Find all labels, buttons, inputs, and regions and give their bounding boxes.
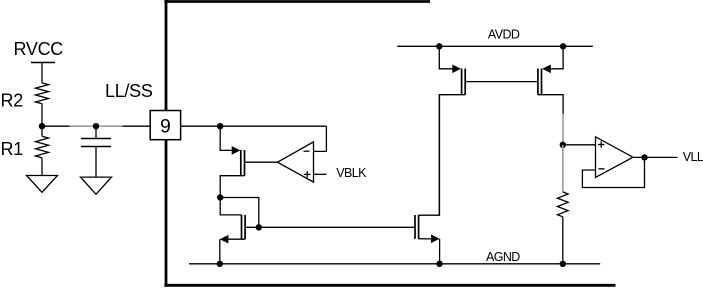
pin 9 box (LL/SS pin) — [150, 111, 180, 140]
wire mirror node C to Q3 gate — [259, 226, 415, 228]
resistor R2 — [36, 83, 49, 104]
wire U1 non-inverting input to VBLK — [314, 173, 327, 175]
U1 minus sign — [304, 150, 310, 152]
node A (LL/SS internal node) — [217, 123, 223, 129]
svg-text:AVDD: AVDD — [488, 28, 520, 42]
wire U2 feedback loop — [582, 157, 644, 187]
wire Q3 source to AGND — [439, 239, 441, 264]
wire through capacitor node (gray segment) — [70, 125, 123, 127]
svg-text:9: 9 — [160, 115, 171, 137]
AGND rail — [189, 263, 600, 265]
wire node D down to resistor (gray segment) — [562, 145, 564, 192]
AVDD rail — [397, 45, 593, 47]
transistor Q5 arrow — [542, 65, 551, 74]
wire node A to U1 inverting input — [314, 126, 327, 151]
U2 plus sign — [598, 144, 605, 146]
node B (Q1 source / Q2 junction) — [217, 194, 223, 200]
transistor Q5 bars — [541, 69, 543, 95]
RVCC terminal — [31, 62, 55, 64]
node C (Q2 drain, mirror node) — [256, 224, 262, 230]
wire node B to Q2 gate — [220, 198, 241, 215]
svg-text:R2: R2 — [1, 90, 24, 110]
node: resistor on AGND rail — [560, 261, 566, 267]
wire Q5 drain to node D (gray segment) — [562, 114, 564, 145]
ground (below capacitor) — [81, 177, 112, 194]
wire R2 to node — [41, 104, 43, 127]
chip boundary top edge — [164, 0, 430, 3]
ground (below R1) — [27, 176, 58, 193]
svg-text:VLL: VLL — [683, 150, 703, 164]
wire AVDD to Q5 source — [551, 46, 564, 69]
wire node B to Q2 drain — [220, 198, 259, 228]
chip boundary bottom edge — [164, 284, 615, 287]
wire AVDD to Q4 source — [439, 46, 452, 69]
node: U2 output junction — [641, 154, 647, 160]
transistor Q3 bars — [414, 215, 416, 239]
node: Q3 source on AGND rail — [436, 261, 442, 267]
wire Q1 gate to op-amp U1 output — [245, 161, 278, 163]
wire RVCC to R2 — [41, 63, 43, 83]
resistor R3 — [558, 192, 569, 217]
op-amp U2 (VLL buffer, pointing right) — [596, 137, 634, 178]
wire capacitor to ground — [95, 147, 97, 178]
node: AVDD left junction — [436, 43, 442, 49]
wire Q4 gate to Q5 gate — [465, 81, 538, 83]
capacitor C1 — [81, 138, 111, 140]
svg-text:VBLK: VBLK — [336, 166, 367, 180]
svg-text:LL/SS: LL/SS — [105, 81, 153, 101]
node: AVDD right junction — [560, 43, 566, 49]
node: capacitor junction — [93, 123, 99, 129]
transistor Q2 arrow — [220, 235, 229, 244]
svg-text:R1: R1 — [1, 139, 24, 159]
op-amp U1 (VBLK comparator, pointing left) — [278, 142, 314, 182]
wire resistor to AGND — [562, 217, 564, 264]
resistor R1 — [36, 136, 49, 158]
transistor Q1 arrow — [232, 146, 241, 155]
wire Q2 source to AGND — [219, 239, 221, 264]
transistor Q2 bars — [241, 215, 243, 239]
wire Q1 source down — [220, 176, 244, 198]
wire R1 to ground — [41, 158, 43, 176]
wire Q5 drain down (black part) — [538, 95, 563, 114]
wire node D to U2 non-inverting input — [563, 144, 596, 146]
wire capacitor node to pin 9 (right part) — [123, 125, 151, 127]
node D (VLL sense node) — [560, 142, 566, 148]
transistor Q4 bars — [461, 69, 463, 95]
wire pin 9 to node A — [181, 125, 327, 127]
wire Q3 source lead — [419, 238, 432, 240]
wire Q4 drain down — [439, 95, 465, 216]
wire node to R1 — [41, 126, 43, 136]
transistor Q4 arrow — [452, 65, 461, 74]
wire node A down to Q1 top — [220, 126, 233, 150]
wire Q2 source lead — [227, 238, 245, 240]
node: R1/R2 divider junction — [39, 123, 45, 129]
U2 minus sign — [599, 168, 605, 170]
wire Q2 drain lead — [245, 226, 259, 228]
chip boundary left edge — [165, 0, 168, 287]
svg-text:RVCC: RVCC — [14, 39, 64, 59]
wire Q3 drain up to Q4 — [419, 95, 440, 216]
transistor Q3 arrow — [431, 235, 440, 244]
U1 plus sign — [304, 173, 311, 175]
wire U2 output to VLL — [633, 156, 678, 158]
node: Q2 source on AGND rail — [217, 261, 223, 267]
svg-text:AGND: AGND — [486, 250, 520, 264]
wire node to capacitor — [95, 126, 97, 138]
transistor Q1 bars — [240, 150, 242, 176]
wire divider node to pin 9 (left part) — [42, 125, 70, 127]
